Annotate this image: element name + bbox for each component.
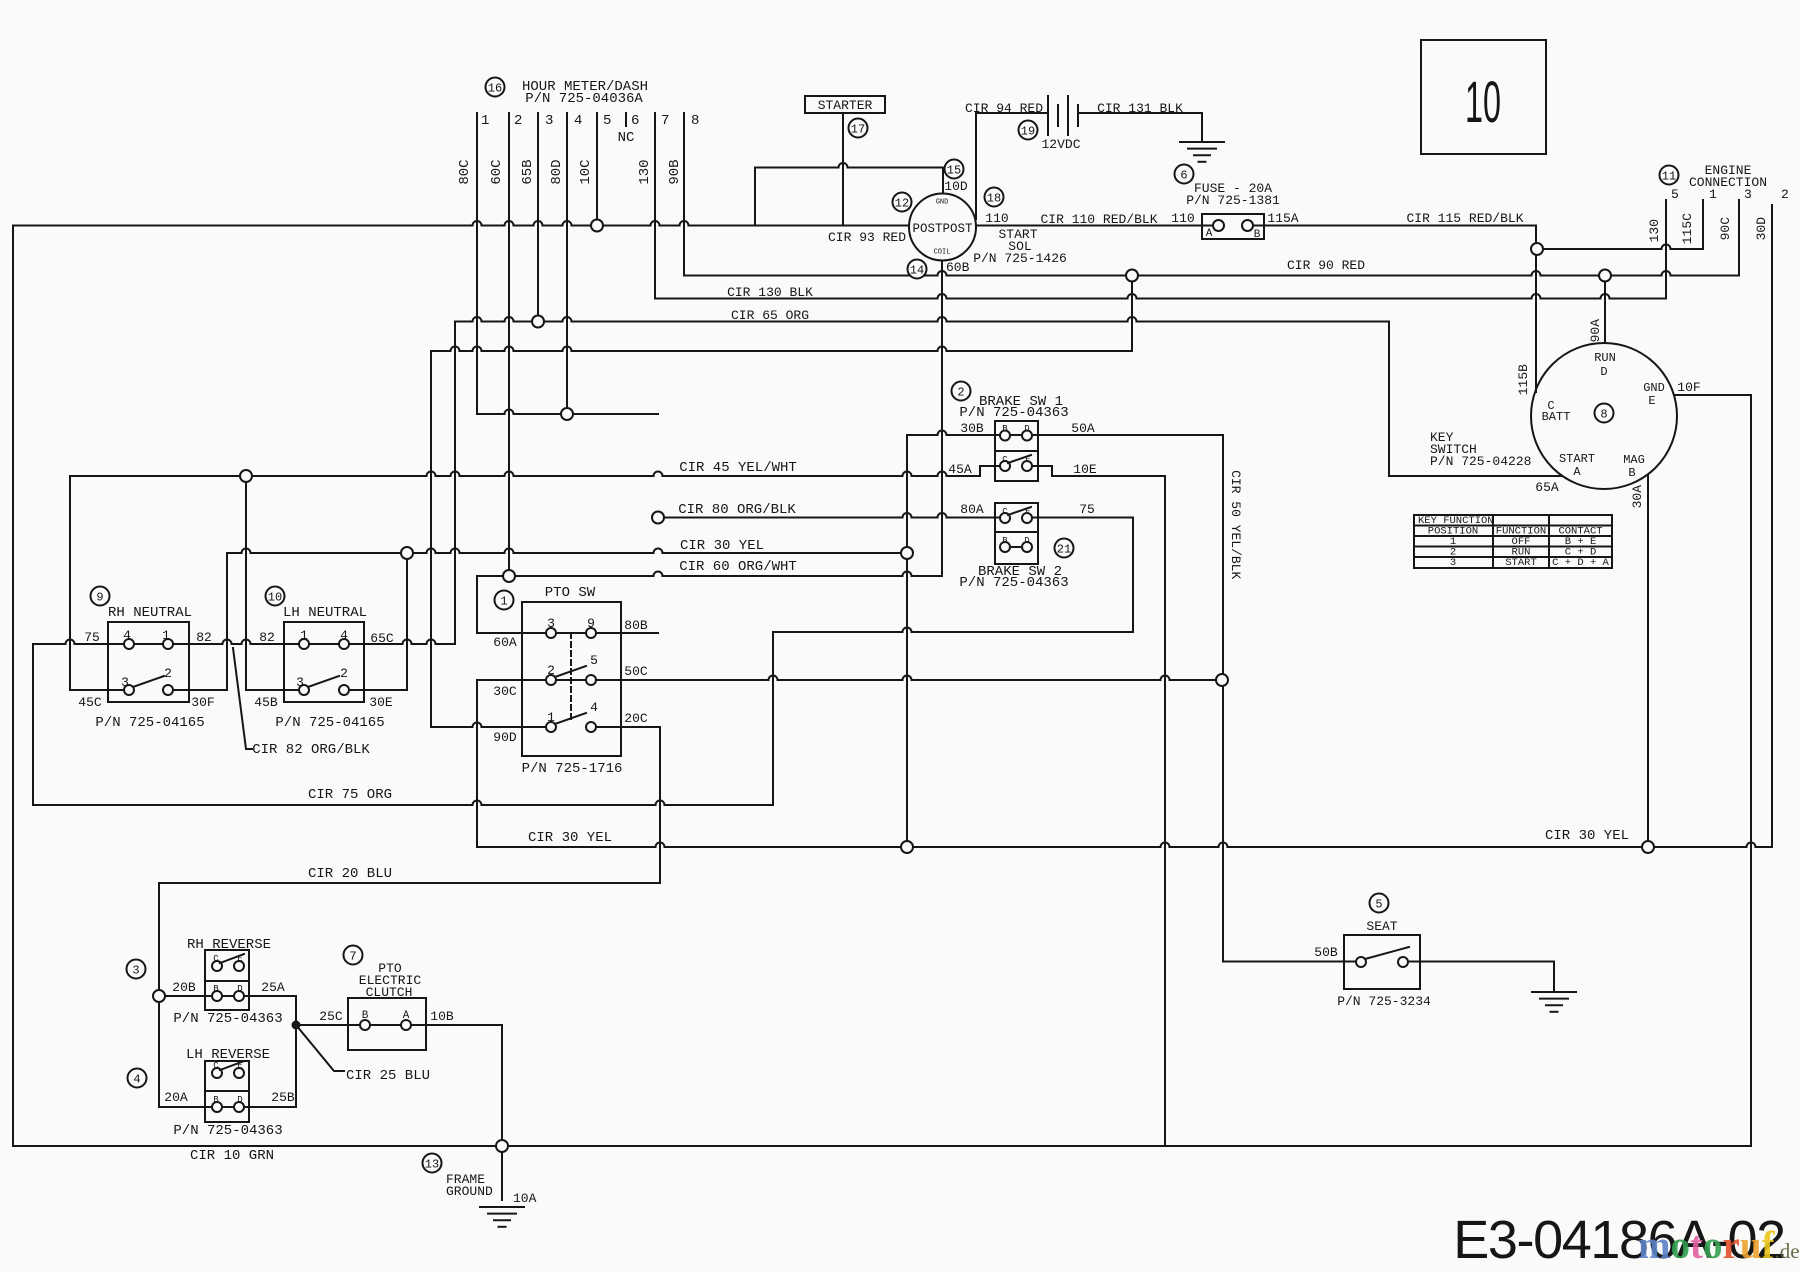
svg-text:18: 18: [987, 191, 1001, 205]
svg-text:8: 8: [1600, 407, 1607, 421]
svg-text:60C: 60C: [489, 159, 505, 184]
svg-text:E: E: [1648, 394, 1655, 408]
svg-text:30E: 30E: [369, 695, 393, 710]
svg-text:8: 8: [691, 113, 699, 129]
svg-text:P/N 725-04363: P/N 725-04363: [959, 575, 1068, 591]
svg-text:4: 4: [133, 1072, 140, 1086]
svg-text:CIR 75 ORG: CIR 75 ORG: [308, 787, 392, 803]
svg-text:115B: 115B: [1516, 364, 1531, 395]
svg-text:90A: 90A: [1588, 319, 1603, 343]
svg-text:STARTER: STARTER: [818, 98, 873, 113]
svg-text:80A: 80A: [960, 502, 984, 517]
svg-text:50C: 50C: [624, 664, 648, 679]
svg-text:13: 13: [425, 1157, 439, 1171]
svg-text:P/N 725-04165: P/N 725-04165: [95, 715, 204, 731]
svg-text:CLUTCH: CLUTCH: [366, 985, 413, 1000]
svg-text:RUN: RUN: [1594, 351, 1616, 365]
svg-text:2: 2: [164, 666, 172, 681]
svg-text:P/N 725-1381: P/N 725-1381: [1186, 193, 1280, 208]
svg-text:CIR 25 BLU: CIR 25 BLU: [346, 1068, 430, 1084]
svg-text:9: 9: [96, 590, 103, 604]
svg-text:3: 3: [1450, 557, 1456, 569]
svg-text:GND: GND: [936, 199, 949, 207]
svg-text:110: 110: [985, 211, 1008, 226]
svg-text:CIR 10 GRN: CIR 10 GRN: [190, 1148, 274, 1164]
svg-text:30B: 30B: [960, 421, 984, 436]
svg-text:60B: 60B: [946, 260, 970, 275]
svg-text:CIR 50 YEL/BLK: CIR 50 YEL/BLK: [1228, 470, 1243, 579]
svg-text:25B: 25B: [271, 1090, 295, 1105]
svg-text:P/N 725-04165: P/N 725-04165: [275, 715, 384, 731]
svg-text:2: 2: [340, 666, 348, 681]
svg-text:30D: 30D: [1754, 217, 1769, 241]
svg-text:D: D: [237, 1095, 242, 1105]
svg-text:11: 11: [1662, 169, 1676, 183]
svg-text:65B: 65B: [520, 159, 536, 184]
svg-text:6: 6: [631, 113, 639, 129]
svg-text:9: 9: [587, 616, 595, 631]
svg-text:50B: 50B: [1314, 945, 1338, 960]
svg-text:CIR 30 YEL: CIR 30 YEL: [1545, 828, 1629, 844]
svg-text:6: 6: [1180, 168, 1187, 182]
svg-text:5: 5: [603, 113, 611, 129]
svg-text:CIR 115 RED/BLK: CIR 115 RED/BLK: [1406, 211, 1523, 226]
svg-text:110: 110: [1171, 211, 1194, 226]
svg-text:7: 7: [661, 113, 669, 129]
svg-text:2: 2: [1781, 187, 1789, 202]
svg-text:7: 7: [349, 949, 356, 963]
svg-text:65A: 65A: [1535, 480, 1559, 495]
svg-text:GND: GND: [1643, 381, 1665, 395]
svg-text:A: A: [403, 1010, 410, 1022]
svg-text:P/N 725-3234: P/N 725-3234: [1337, 994, 1431, 1009]
svg-text:45C: 45C: [78, 695, 102, 710]
svg-text:SEAT: SEAT: [1366, 919, 1397, 934]
svg-text:E: E: [1025, 455, 1030, 465]
svg-text:3: 3: [296, 675, 304, 690]
svg-text:10D: 10D: [944, 179, 968, 194]
svg-text:75: 75: [1079, 502, 1095, 517]
svg-text:NC: NC: [618, 130, 635, 146]
svg-text:POSTPOST: POSTPOST: [912, 222, 973, 236]
svg-text:A: A: [1573, 465, 1581, 479]
svg-text:80B: 80B: [624, 618, 648, 633]
svg-text:115A: 115A: [1267, 211, 1298, 226]
svg-text:16: 16: [488, 81, 502, 95]
svg-text:10F: 10F: [1677, 380, 1700, 395]
svg-text:20A: 20A: [164, 1090, 188, 1105]
svg-text:30F: 30F: [191, 695, 214, 710]
svg-text:80C: 80C: [457, 159, 473, 184]
svg-text:C: C: [1002, 507, 1008, 517]
svg-text:10E: 10E: [1073, 462, 1097, 477]
svg-text:60A: 60A: [493, 635, 517, 650]
svg-text:90B: 90B: [667, 159, 683, 184]
svg-text:90C: 90C: [1718, 217, 1733, 241]
svg-text:P/N 725-04228: P/N 725-04228: [1430, 454, 1531, 469]
svg-text:45A: 45A: [948, 462, 972, 477]
svg-text:B: B: [1628, 466, 1635, 480]
svg-text:5: 5: [1671, 187, 1679, 202]
svg-text:82: 82: [259, 630, 275, 645]
svg-text:65C: 65C: [370, 631, 394, 646]
svg-text:4: 4: [590, 700, 598, 715]
svg-text:C + D + A: C + D + A: [1552, 557, 1609, 569]
svg-text:B: B: [213, 1095, 219, 1105]
svg-text:17: 17: [851, 122, 865, 136]
svg-text:CIR 30 YEL: CIR 30 YEL: [680, 538, 764, 554]
svg-text:RH REVERSE: RH REVERSE: [187, 937, 271, 953]
svg-text:1: 1: [300, 628, 308, 643]
svg-text:10: 10: [1465, 70, 1501, 135]
svg-text:30C: 30C: [493, 684, 517, 699]
svg-text:1: 1: [547, 710, 555, 725]
svg-text:CIR 93 RED: CIR 93 RED: [828, 230, 906, 245]
svg-text:MAG: MAG: [1623, 453, 1645, 467]
svg-text:COIL: COIL: [934, 249, 951, 257]
svg-text:90D: 90D: [493, 730, 517, 745]
svg-text:B: B: [1002, 424, 1008, 434]
svg-text:4: 4: [123, 628, 131, 643]
svg-text:CIR 90 RED: CIR 90 RED: [1287, 258, 1365, 273]
svg-text:3: 3: [121, 675, 129, 690]
svg-text:GROUND: GROUND: [446, 1184, 493, 1199]
svg-text:130: 130: [1647, 219, 1662, 242]
svg-text:P/N 725-1716: P/N 725-1716: [522, 761, 623, 777]
svg-text:2: 2: [957, 385, 964, 399]
svg-text:D: D: [1600, 365, 1607, 379]
svg-text:C: C: [1002, 455, 1008, 465]
svg-text:4: 4: [574, 113, 582, 129]
svg-text:CIR 131 BLK: CIR 131 BLK: [1097, 101, 1183, 116]
svg-text:CIR 30 YEL: CIR 30 YEL: [528, 830, 612, 846]
svg-text:3: 3: [547, 616, 555, 631]
svg-text:B: B: [1254, 229, 1261, 241]
svg-text:1: 1: [481, 113, 489, 129]
svg-text:75: 75: [84, 630, 100, 645]
svg-text:20C: 20C: [624, 711, 648, 726]
svg-text:P/N 725-04036A: P/N 725-04036A: [525, 91, 643, 107]
svg-text:CIR 60 ORG/WHT: CIR 60 ORG/WHT: [679, 559, 797, 575]
svg-text:D: D: [237, 984, 242, 994]
svg-text:82: 82: [196, 630, 212, 645]
svg-text:LH NEUTRAL: LH NEUTRAL: [283, 605, 367, 621]
svg-text:1: 1: [162, 628, 170, 643]
svg-text:3: 3: [1744, 187, 1752, 202]
svg-text:20B: 20B: [172, 980, 196, 995]
svg-text:80D: 80D: [549, 159, 565, 184]
svg-text:10A: 10A: [513, 1191, 537, 1206]
svg-text:15: 15: [947, 163, 961, 177]
svg-text:E: E: [1025, 507, 1030, 517]
svg-text:CIR 80 ORG/BLK: CIR 80 ORG/BLK: [678, 502, 796, 518]
svg-text:CONNECTION: CONNECTION: [1689, 175, 1767, 190]
svg-text:PTO SW: PTO SW: [545, 585, 596, 601]
svg-text:C: C: [213, 1061, 219, 1071]
svg-text:10: 10: [268, 590, 282, 604]
svg-text:10B: 10B: [430, 1009, 454, 1024]
svg-text:19: 19: [1021, 124, 1035, 138]
svg-text:P/N 725-04363: P/N 725-04363: [173, 1011, 282, 1027]
svg-text:10C: 10C: [578, 159, 594, 184]
svg-text:45B: 45B: [254, 695, 278, 710]
svg-text:D: D: [1024, 424, 1029, 434]
svg-text:5: 5: [590, 653, 598, 668]
svg-text:C: C: [213, 954, 219, 964]
svg-text:30A: 30A: [1630, 485, 1645, 509]
svg-text:50A: 50A: [1071, 421, 1095, 436]
svg-text:CIR 65 ORG: CIR 65 ORG: [731, 308, 809, 323]
svg-text:RH NEUTRAL: RH NEUTRAL: [108, 605, 192, 621]
svg-text:START: START: [1505, 557, 1537, 569]
svg-text:25A: 25A: [261, 980, 285, 995]
svg-text:2: 2: [514, 113, 522, 129]
svg-text:P/N 725-1426: P/N 725-1426: [973, 251, 1067, 266]
svg-text:CIR 130 BLK: CIR 130 BLK: [727, 285, 813, 300]
svg-text:B: B: [213, 984, 219, 994]
svg-text:4: 4: [340, 628, 348, 643]
svg-text:3: 3: [132, 963, 139, 977]
svg-text:CIR 45 YEL/WHT: CIR 45 YEL/WHT: [679, 460, 797, 476]
svg-text:21: 21: [1057, 542, 1071, 556]
svg-text:CIR 82 ORG/BLK: CIR 82 ORG/BLK: [252, 742, 370, 758]
svg-text:LH REVERSE: LH REVERSE: [186, 1047, 270, 1063]
svg-text:25C: 25C: [319, 1009, 343, 1024]
svg-text:3: 3: [545, 113, 553, 129]
svg-text:CIR 94 RED: CIR 94 RED: [965, 101, 1043, 116]
svg-text:P/N 725-04363: P/N 725-04363: [959, 405, 1068, 421]
svg-text:BATT: BATT: [1542, 410, 1571, 424]
svg-text:B: B: [362, 1010, 369, 1022]
svg-text:1: 1: [500, 594, 507, 608]
svg-text:1: 1: [1709, 187, 1717, 202]
svg-text:5: 5: [1375, 897, 1382, 911]
svg-text:D: D: [1024, 536, 1029, 546]
svg-text:12VDC: 12VDC: [1041, 137, 1080, 152]
svg-text:A: A: [1206, 228, 1213, 240]
svg-text:2: 2: [547, 663, 555, 678]
svg-text:CIR 110 RED/BLK: CIR 110 RED/BLK: [1040, 212, 1157, 227]
svg-text:130: 130: [637, 159, 653, 184]
svg-text:CIR 20 BLU: CIR 20 BLU: [308, 866, 392, 882]
svg-text:B: B: [1002, 536, 1008, 546]
svg-text:E: E: [237, 1061, 242, 1071]
svg-text:115C: 115C: [1680, 213, 1695, 244]
svg-text:12: 12: [895, 196, 909, 210]
svg-text:E: E: [237, 954, 242, 964]
svg-text:START: START: [1559, 452, 1595, 466]
svg-text:P/N 725-04363: P/N 725-04363: [173, 1123, 282, 1139]
svg-text:14: 14: [910, 263, 924, 277]
